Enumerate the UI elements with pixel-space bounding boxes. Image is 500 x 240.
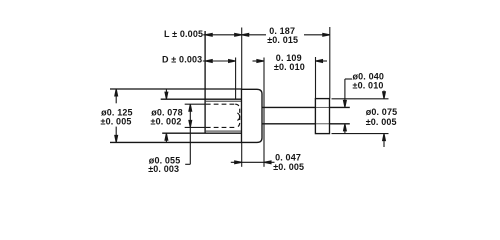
solder collar: [315, 99, 329, 134]
collar dim extension top: [332, 98, 389, 100]
body outline bottom: [162, 132, 241, 134]
pin lead right section: [330, 106, 350, 108]
dim dia 0.078 arrows outside: [165, 89, 167, 93]
svg-text:ø0. 075: ø0. 075: [366, 107, 398, 117]
dim dia 0.040 leader arrows: [345, 78, 352, 80]
cavity dim extension bottom: [185, 126, 206, 128]
extension line D right: [235, 58, 237, 100]
cavity dim extension top: [185, 103, 206, 105]
dim L line with arrows: [203, 34, 242, 36]
flange F1: [242, 89, 263, 142]
cavity hidden end cap dashed: [235, 104, 240, 127]
pin lead left section: [262, 106, 315, 108]
svg-text:±0. 005: ±0. 005: [366, 117, 397, 127]
dim dia 0.125 vertical with arrows: [115, 89, 117, 103]
svg-text:±0. 010: ±0. 010: [353, 80, 384, 90]
dim dia 0.075 arrows: [383, 91, 385, 94]
extension line flange left above: [241, 28, 243, 90]
dim D line with arrows: [203, 60, 236, 62]
extension line top of flange dia 0.125: [110, 88, 242, 90]
extension line collar right: [329, 27, 331, 99]
svg-text:±0. 015: ±0. 015: [267, 35, 298, 45]
drill point arc: [237, 113, 239, 120]
dim dia 0.055 vertical with arrows and leader: [189, 104, 191, 164]
dim 0.187 line with arrows: [242, 33, 249, 36]
svg-text:±0. 003: ±0. 003: [148, 164, 179, 174]
svg-text:±0. 010: ±0. 010: [274, 62, 305, 72]
svg-text:L ± 0.005: L ± 0.005: [164, 29, 203, 39]
extension line bottom of flange dia 0.125: [110, 141, 242, 143]
dim 0.109 outside arrows: [253, 60, 264, 62]
svg-text:±0. 005: ±0. 005: [101, 116, 132, 126]
cavity hidden outline top dashed: [206, 103, 235, 105]
body outline top: [161, 98, 242, 100]
extension line flange right: [263, 58, 265, 167]
svg-text:D ± 0.003: D ± 0.003: [162, 54, 202, 64]
cavity hidden outline bottom dashed: [206, 126, 235, 128]
svg-text:±0. 002: ±0. 002: [151, 116, 182, 126]
pin hidden through collar: [315, 106, 329, 108]
extension line flange left below: [241, 142, 243, 166]
collar dim extension bottom: [332, 133, 389, 135]
dim 0.047 outside arrows: [231, 161, 264, 163]
svg-text:±0. 005: ±0. 005: [273, 162, 304, 172]
inner shell wall hidden bottom: [206, 130, 242, 132]
extension line collar left: [315, 57, 317, 99]
body mouth face / extension line vertical: [204, 31, 206, 133]
leader elbow dia 0.055: [185, 163, 190, 165]
inner shell wall hidden top: [206, 100, 242, 102]
